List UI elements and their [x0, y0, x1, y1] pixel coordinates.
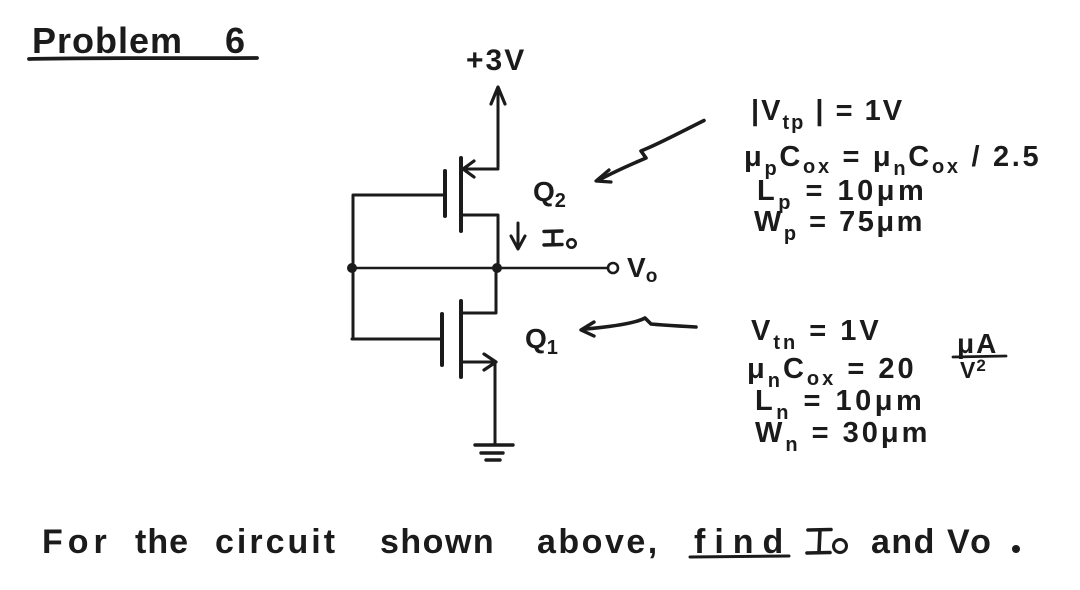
wire: +3V supply arrow vertical — [497, 90, 500, 167]
svg-text:6: 6 — [225, 20, 245, 61]
svg-text:the: the — [135, 523, 189, 561]
transistor Q1 source lead with arrow — [461, 361, 494, 364]
+3V arrowhead — [491, 87, 505, 104]
svg-text:Vtn = 1V: Vtn = 1V — [751, 315, 882, 354]
wire: output node horizontal to Vo terminal — [352, 267, 607, 270]
title "Problem 6" underline — [29, 58, 257, 59]
svg-text:+3V: +3V — [466, 44, 526, 77]
node: Vo open terminal — [608, 263, 618, 273]
svg-text:Q2: Q2 — [533, 176, 566, 212]
svg-text:Wp = 75μm: Wp = 75μm — [754, 206, 925, 245]
ground — [475, 443, 513, 446]
svg-text:μA: μA — [957, 328, 998, 359]
svg-text:Vo: Vo — [627, 252, 657, 287]
transistor Q1 channel bar — [459, 301, 463, 377]
period — [1012, 545, 1020, 553]
svg-text:and: and — [871, 523, 936, 561]
svg-text:circuit: circuit — [215, 523, 338, 561]
node: output junction dot left — [347, 263, 357, 273]
svg-text:V2: V2 — [960, 356, 987, 383]
wire: Q1 source to ground — [494, 362, 497, 444]
transistor Q1 gate bar — [440, 314, 444, 365]
svg-text:Wn = 30μm: Wn = 30μm — [755, 417, 930, 456]
Io label — [544, 231, 576, 248]
wire: Q1 gate lead — [352, 338, 442, 341]
Q1 source arrowhead — [484, 354, 496, 370]
wire: Q2 drain lead — [461, 215, 498, 268]
transistor Q2 gate bar — [443, 171, 447, 216]
wire: Q1 drain lead — [461, 268, 496, 313]
underline for "find" — [690, 556, 789, 557]
fraction bar uA/V2 — [953, 356, 1006, 357]
svg-text:For: For — [42, 523, 112, 561]
wire: Q2 gate lead — [354, 194, 445, 197]
svg-text:shown: shown — [380, 523, 495, 561]
transistor Q2 channel bar — [459, 158, 463, 231]
svg-text:Problem: Problem — [32, 20, 183, 61]
Q2 source arrowhead — [463, 161, 474, 177]
svg-text:|Vtp | = 1V: |Vtp | = 1V — [751, 95, 904, 134]
svg-text:above,: above, — [537, 523, 660, 561]
transistor Q2 source lead (horizontal with arrow into channel) — [463, 168, 498, 171]
annotation arrow to Q1 — [586, 318, 696, 329]
wire: left gate rail vertical — [352, 195, 355, 339]
Io arrow — [517, 223, 520, 247]
svg-text:Vo: Vo — [947, 523, 994, 561]
svg-text:Q1: Q1 — [525, 323, 558, 359]
node: output junction dot right — [492, 263, 502, 273]
svg-text:find: find — [694, 523, 792, 561]
annotation arrow to Q2 — [601, 121, 704, 180]
